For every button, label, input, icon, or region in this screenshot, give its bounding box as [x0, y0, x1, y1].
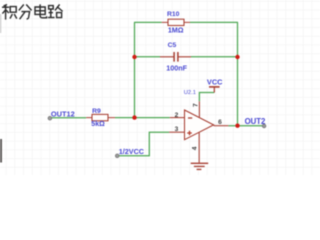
svg-text:7: 7	[192, 103, 199, 107]
left edge mark lower	[0, 139, 2, 163]
junction at C5 right	[235, 55, 239, 59]
svg-text:U2.1: U2.1	[184, 90, 196, 96]
wire: left vertical feedback	[134, 22, 136, 117]
pin 2 lead	[170, 117, 185, 119]
resistor R10	[162, 19, 190, 25]
svg-text:R9: R9	[92, 108, 101, 115]
junction at C5 left	[132, 55, 136, 59]
pin 4 lead	[198, 133, 200, 163]
wire: OUT12 to R9	[50, 117, 86, 119]
wire: 1/2VCC to pin3	[117, 132, 169, 156]
plus sign	[187, 131, 192, 136]
svg-text:R10: R10	[167, 11, 180, 18]
svg-text:1/2VCC: 1/2VCC	[119, 147, 144, 156]
net port OUT2	[262, 124, 266, 128]
svg-text:C5: C5	[168, 42, 177, 49]
svg-text:4: 4	[192, 146, 199, 150]
capacitor C5	[160, 52, 191, 62]
junction at R9 output	[132, 115, 136, 119]
net port OUT12	[48, 116, 52, 120]
left edge mark upper	[0, 14, 1, 33]
pin 3 lead	[169, 131, 184, 133]
svg-text:6: 6	[218, 119, 222, 126]
op-amp U2.1	[169, 101, 228, 163]
wire: right vertical feedback	[237, 22, 239, 125]
power flag VCC	[209, 87, 220, 93]
minus sign	[188, 117, 192, 119]
svg-text:5kΩ: 5kΩ	[91, 121, 105, 128]
junction at output node	[235, 124, 239, 128]
wire: top row left of R10	[134, 21, 162, 23]
wire: output to OUT2	[228, 125, 264, 127]
svg-text:3: 3	[175, 126, 179, 133]
svg-text:OUT12: OUT12	[51, 109, 75, 118]
pin 6 lead	[214, 125, 229, 127]
wire: C5 row left	[135, 56, 161, 58]
svg-text:OUT2: OUT2	[245, 117, 266, 126]
ground	[191, 163, 209, 169]
wire: C5 row right	[191, 56, 238, 58]
svg-text:100nF: 100nF	[166, 64, 187, 73]
svg-text:VCC: VCC	[207, 77, 223, 86]
wire: VCC to pin7	[199, 93, 214, 102]
resistor R9	[86, 114, 115, 120]
title 积分电路	[2, 4, 63, 19]
wire: top row right of R10	[190, 21, 238, 23]
net port 1/2VCC	[115, 154, 119, 158]
svg-text:2: 2	[175, 112, 179, 119]
svg-text:1MΩ: 1MΩ	[168, 25, 184, 34]
wire: R9 to pin2	[115, 117, 170, 119]
pin 7 lead	[198, 101, 200, 117]
